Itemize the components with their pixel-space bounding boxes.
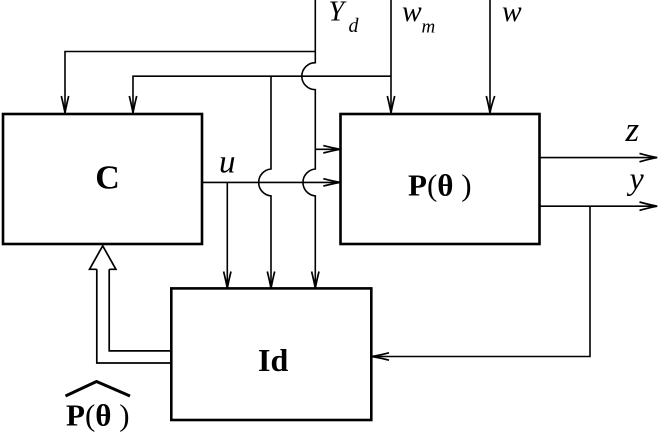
svg-text:Id: Id bbox=[258, 342, 288, 378]
svg-text:u: u bbox=[219, 145, 236, 181]
svg-text:m: m bbox=[422, 17, 436, 38]
svg-text:P(θ ): P(θ ) bbox=[408, 167, 472, 202]
svg-text:C: C bbox=[95, 159, 120, 196]
svg-text:w: w bbox=[402, 0, 422, 28]
svg-text:z: z bbox=[625, 110, 640, 149]
svg-text:y: y bbox=[627, 160, 645, 196]
svg-text:d: d bbox=[349, 15, 360, 37]
svg-text:P(θ ): P(θ ) bbox=[66, 397, 130, 432]
svg-text:w: w bbox=[502, 0, 522, 28]
